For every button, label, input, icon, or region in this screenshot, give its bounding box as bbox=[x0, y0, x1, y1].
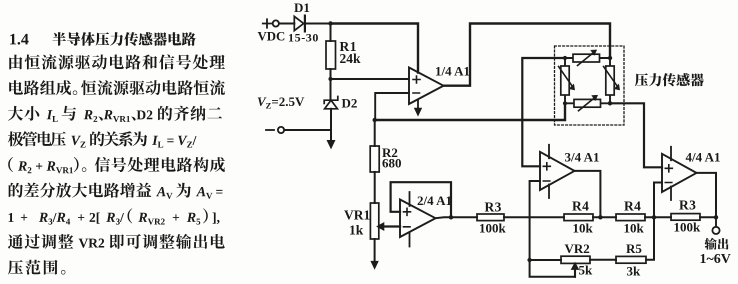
wire 4/4 A1 output to node H bbox=[697, 173, 717, 217]
text line5 bbox=[8, 131, 197, 147]
resistor R3 (second 100k) bbox=[671, 214, 716, 221]
svg-text:VR2: VR2 bbox=[565, 241, 590, 256]
wire 1/4 A1 output rail to bridge top-right bbox=[444, 24, 611, 86]
label Vz=2.5V bbox=[257, 94, 305, 111]
svg-text:3/4 A1: 3/4 A1 bbox=[565, 150, 600, 165]
resistor R2 bbox=[370, 120, 379, 203]
wire VDC rail to 1/4 A1 V+ pin bbox=[331, 24, 419, 73]
svg-text:5k: 5k bbox=[579, 263, 594, 278]
label output terminal (cjk) bbox=[704, 238, 728, 250]
wire VDC+ to D1 anode bbox=[279, 23, 294, 25]
label D2 bbox=[342, 96, 358, 111]
resistor R1 bbox=[326, 24, 336, 100]
wire node B to 1/4 A1 + input bbox=[331, 78, 410, 80]
node C junction dot (bus / R2 / feedback) bbox=[373, 118, 377, 122]
op-amp U3 supply stubs bbox=[548, 145, 550, 198]
svg-text:3k: 3k bbox=[627, 264, 642, 279]
node A junction dot (top of R1) bbox=[328, 21, 332, 25]
negative rail arrow below VR1 bbox=[371, 239, 378, 269]
label R2 680 bbox=[382, 145, 402, 171]
node F junction dot (3/4 A1 output) bbox=[598, 215, 602, 219]
op-amp U3 (3/4 A1) bbox=[540, 152, 575, 190]
op-amp U1 V- supply arrow bbox=[415, 100, 422, 116]
node D junction dot (2/4 A1 output) bbox=[449, 215, 453, 219]
label D1 bbox=[294, 0, 310, 15]
wire 3/4 A1 - input to node E and VR2 bbox=[530, 181, 540, 260]
label VR1 1k bbox=[344, 208, 370, 238]
resistor R4 (second 10k) bbox=[616, 214, 671, 221]
pressure sensor dashed enclosure bbox=[555, 46, 625, 125]
text line2 bbox=[9, 54, 225, 69]
svg-text:R5: R5 bbox=[626, 241, 642, 256]
wire bus node C to bridge bottom-left bbox=[375, 103, 565, 120]
potentiometer VR1 bbox=[370, 203, 400, 239]
svg-text:10k: 10k bbox=[624, 221, 645, 236]
svg-text:R3: R3 bbox=[485, 200, 502, 215]
terminal + (VDC positive input) bbox=[263, 19, 279, 27]
svg-text:4/4 A1: 4/4 A1 bbox=[686, 150, 721, 165]
label VDC 15-30 bbox=[258, 30, 320, 45]
strain gauge bridge right element bbox=[604, 58, 620, 103]
zener diode D2 bbox=[324, 97, 338, 131]
wire VR2 to R5 bbox=[590, 259, 616, 261]
label R5 3k bbox=[626, 241, 642, 279]
wire bridge top-left to 3/4 A1 + input bbox=[522, 58, 565, 166]
wire 3/4 A1 output to node F bbox=[575, 171, 601, 217]
svg-text:1~6V: 1~6V bbox=[700, 252, 731, 267]
potentiometer VR2 bbox=[561, 256, 590, 277]
label R1 24k bbox=[340, 39, 362, 66]
text line9 bbox=[8, 234, 225, 249]
op-amp U2 (2/4 A1) bbox=[400, 200, 436, 238]
terminal - (VDC negative input) bbox=[266, 127, 284, 133]
wire - terminal to negative rail node bbox=[284, 129, 331, 131]
text line8 bbox=[9, 208, 220, 224]
svg-text:10k: 10k bbox=[573, 221, 594, 236]
wire node I to VR2 bbox=[530, 259, 561, 261]
svg-text:VDC: VDC bbox=[258, 30, 286, 44]
strain gauge bridge top element bbox=[565, 50, 610, 66]
resistor R3 (first 100k) bbox=[477, 214, 564, 221]
wire 1/4 A1 - input feedback bbox=[375, 93, 409, 120]
svg-text:VZ=2.5V: VZ=2.5V bbox=[257, 94, 305, 111]
label pressure sensor (cjk) bbox=[635, 73, 704, 86]
strain gauge bridge left element bbox=[559, 58, 575, 103]
node B junction dot (R1 bottom / D2 / op-amp +) bbox=[328, 77, 332, 81]
text title bbox=[10, 32, 196, 46]
svg-text:24k: 24k bbox=[340, 51, 362, 66]
svg-text:R4: R4 bbox=[624, 199, 641, 214]
text line4 bbox=[8, 106, 222, 122]
svg-text:100k: 100k bbox=[479, 221, 507, 236]
text line6 bbox=[8, 157, 225, 173]
svg-text:15-30: 15-30 bbox=[288, 31, 319, 45]
op-amp U4 supply stubs bbox=[670, 147, 672, 200]
wire R5 to node G bbox=[646, 217, 654, 259]
svg-text:1k: 1k bbox=[349, 223, 364, 238]
label R3 100k (first) bbox=[479, 200, 507, 236]
svg-text:680: 680 bbox=[382, 156, 402, 171]
label R4 10k (second) bbox=[624, 199, 645, 236]
text line3 bbox=[9, 80, 225, 95]
label VR2 5k bbox=[565, 241, 594, 278]
terminal output circle bbox=[712, 217, 719, 234]
strain gauge bridge bottom element bbox=[565, 95, 610, 111]
wire VR2 wiper loop bbox=[530, 260, 575, 277]
svg-text:1/4 A1: 1/4 A1 bbox=[435, 64, 470, 79]
bridge corner junction dots bbox=[563, 56, 612, 106]
wire bridge bottom-right to 4/4 A1 + input bbox=[610, 103, 662, 167]
diode D1 bbox=[294, 16, 305, 32]
svg-text:VR1: VR1 bbox=[344, 208, 370, 223]
label op-amp 4/4 A1 bbox=[686, 150, 721, 165]
label op-amp 2/4 A1 bbox=[417, 193, 452, 208]
node H junction dot (output node) bbox=[714, 215, 718, 219]
wire D1 cathode to node A (VDC rail) bbox=[306, 23, 331, 25]
text line7 bbox=[9, 183, 223, 199]
text line10 bbox=[8, 260, 65, 275]
svg-text:100k: 100k bbox=[674, 220, 702, 235]
node G junction dot (R4/R3/4-4A1 minus) bbox=[652, 215, 656, 219]
op-amp U2 supply stubs bbox=[409, 192, 411, 247]
wire 2/4 A1 output to R3 bbox=[436, 216, 478, 219]
resistor R5 bbox=[616, 256, 646, 263]
resistor R4 (first 10k) bbox=[564, 214, 616, 221]
label R4 10k (first) bbox=[572, 199, 594, 236]
svg-text:D1: D1 bbox=[294, 0, 310, 15]
label op-amp 3/4 A1 bbox=[565, 150, 600, 165]
svg-text:2/4 A1: 2/4 A1 bbox=[417, 193, 452, 208]
node I junction dot (VR2 left) bbox=[527, 258, 531, 262]
svg-text:R3: R3 bbox=[679, 198, 696, 213]
label op-amp 1/4 A1 bbox=[435, 64, 470, 79]
negative rail arrow below D2 bbox=[327, 130, 334, 148]
op-amp U4 (4/4 A1) bbox=[662, 154, 697, 192]
op-amp U1 (1/4 A1) bbox=[409, 68, 444, 105]
label R3 100k (second) bbox=[674, 198, 702, 235]
svg-text:D2: D2 bbox=[342, 96, 358, 111]
svg-text:R4: R4 bbox=[572, 199, 589, 214]
wire 2/4 A1 feedback loop output to + input bbox=[391, 182, 451, 215]
wire 4/4 A1 - input to node G bbox=[654, 183, 662, 218]
label 1~6V bbox=[700, 252, 731, 267]
